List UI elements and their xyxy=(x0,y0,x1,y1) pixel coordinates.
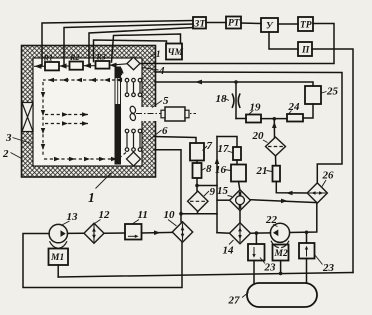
svg-text:М1: М1 xyxy=(50,253,64,263)
filter diamond 10 xyxy=(172,222,192,242)
svg-text:4: 4 xyxy=(158,65,165,77)
svg-text:25: 25 xyxy=(326,86,339,98)
wire chamber to box 7 xyxy=(154,137,196,144)
pump-motor diamond 15 xyxy=(230,190,251,211)
wire RT-U xyxy=(241,22,261,25)
junction node 23 left tap xyxy=(255,231,259,235)
block CHM xyxy=(166,44,182,60)
wire 9 bottom to node xyxy=(181,212,198,214)
wire tap to tank box 23 left xyxy=(255,233,257,244)
block 16 xyxy=(231,165,246,182)
wire node8 to riser xyxy=(197,185,217,187)
svg-text:R1: R1 xyxy=(43,54,53,63)
svg-text:9: 9 xyxy=(210,186,216,198)
wire riser bottom to valve 14 xyxy=(217,232,230,235)
riser wire x217 xyxy=(216,137,218,233)
block TR xyxy=(298,17,313,31)
wire pump15 to 26 bottom xyxy=(251,200,317,203)
wire U-TR xyxy=(278,23,298,25)
svg-text:5: 5 xyxy=(163,95,169,107)
wire 12-11 xyxy=(104,232,125,234)
svg-text:23: 23 xyxy=(322,262,335,274)
fan 5 propeller xyxy=(129,106,136,122)
heat exchanger 25 xyxy=(305,86,321,104)
wire 19-24 xyxy=(261,118,287,120)
block U xyxy=(261,18,278,32)
sensor diamond 4 xyxy=(127,57,140,70)
svg-text:20: 20 xyxy=(252,130,265,142)
wire U-P xyxy=(269,32,298,49)
wire node to riser xyxy=(181,213,217,215)
svg-text:16: 16 xyxy=(215,164,227,176)
dashed circulation flow xyxy=(43,69,126,159)
svg-text:18: 18 xyxy=(216,93,228,105)
wire bus L1 to ZT xyxy=(42,21,193,67)
restrictor 19 xyxy=(246,115,261,123)
arrow right 15 to 26 xyxy=(281,199,288,204)
nozzle 18 arcs xyxy=(232,94,239,107)
wire pump13 to 12 xyxy=(68,232,85,234)
chamber interior xyxy=(34,59,141,165)
svg-text:ЗТ: ЗТ xyxy=(194,20,207,30)
pump 22 xyxy=(270,223,289,247)
wire 23L to tank xyxy=(253,261,255,284)
wire 24 to 25 xyxy=(303,104,313,118)
valve diamond 9 xyxy=(188,191,208,211)
svg-text:13: 13 xyxy=(67,211,79,223)
flow arrows on wires xyxy=(154,80,293,235)
svg-text:24: 24 xyxy=(288,101,301,113)
wire 18 vertical lower to 19 xyxy=(236,118,246,120)
wire 23R to tank xyxy=(306,259,308,283)
filter diamond 12 xyxy=(84,223,104,243)
svg-text:М2: М2 xyxy=(274,249,288,259)
wire 21 down right to filter 26 xyxy=(276,182,307,194)
in-wall exchanger 3 xyxy=(22,103,33,132)
svg-text:ЧМ: ЧМ xyxy=(168,48,184,58)
motor M1 box xyxy=(49,249,69,266)
wire 18 vertical upper xyxy=(235,82,237,119)
motor M2 box xyxy=(273,245,289,261)
svg-text:РТ: РТ xyxy=(228,19,241,29)
block ZT xyxy=(193,17,206,29)
arrow in box 23 right (up) xyxy=(305,246,308,257)
block 11 xyxy=(125,224,142,240)
wire P right down to motors line xyxy=(312,49,353,273)
wire bus L5 specimen to CHM xyxy=(112,34,181,62)
flow arrow into chamber xyxy=(195,80,202,85)
wire 15-14 xyxy=(239,211,241,223)
svg-text:П: П xyxy=(301,46,310,56)
valve 21 xyxy=(273,166,281,182)
contacts 6 lower group xyxy=(125,129,142,151)
svg-text:11: 11 xyxy=(138,209,148,221)
svg-text:19: 19 xyxy=(250,102,262,114)
heater link line with arrows xyxy=(34,63,127,68)
block 17 xyxy=(233,147,241,160)
wire M1 drop xyxy=(57,265,59,277)
svg-text:14: 14 xyxy=(223,245,235,257)
wire bus L3 to ZT xyxy=(89,28,193,66)
wire chamber to valve 10 xyxy=(154,150,181,222)
junction node M2 supply xyxy=(279,272,283,276)
specimen bar xyxy=(115,67,121,164)
sensor diamond lower xyxy=(127,152,141,166)
wire 11-10 xyxy=(142,231,173,234)
wire 16-15 xyxy=(239,182,240,190)
wire 20-21 xyxy=(275,156,277,166)
junction node 23 right tap xyxy=(305,231,309,235)
wire motors line M1-M2-P xyxy=(58,273,353,278)
arrow up on riser xyxy=(215,158,220,165)
wire 10 bottom return loop xyxy=(23,234,182,288)
svg-text:1: 1 xyxy=(156,49,161,59)
wire 17-16 xyxy=(236,160,238,165)
svg-text:ТР: ТР xyxy=(300,21,312,31)
valve 8 xyxy=(193,163,202,178)
junction node below 8 xyxy=(195,184,199,188)
svg-text:2: 2 xyxy=(2,148,9,160)
heater R3 xyxy=(96,61,110,69)
svg-text:7: 7 xyxy=(207,140,213,152)
junction node at 18 tap xyxy=(234,80,238,84)
pump 13 xyxy=(49,224,67,248)
svg-text:3: 3 xyxy=(5,132,12,144)
wire riser top to 17 xyxy=(217,137,237,148)
contacts 4 upper group xyxy=(125,78,142,96)
chamber 1 wall (cross-hatched) xyxy=(22,46,156,178)
svg-text:23: 23 xyxy=(264,262,277,274)
svg-text:12: 12 xyxy=(99,209,111,221)
leader lines xyxy=(11,54,327,298)
block P xyxy=(298,42,312,56)
block 7 xyxy=(190,143,204,161)
motor 5 with shaft xyxy=(136,107,196,121)
wire 14 to pump 22 xyxy=(251,232,271,234)
wire 8-9 xyxy=(196,178,198,191)
svg-text:21: 21 xyxy=(256,165,268,177)
svg-text:22: 22 xyxy=(265,214,278,226)
tank box 23 right xyxy=(299,243,315,259)
throttle diamond 20 xyxy=(266,137,286,156)
filter diamond 26 xyxy=(307,183,327,203)
svg-text:R3: R3 xyxy=(96,53,106,62)
svg-text:15: 15 xyxy=(217,185,229,197)
svg-text:1: 1 xyxy=(88,190,95,205)
heater R1 xyxy=(45,62,59,70)
restrictor 24 xyxy=(287,114,303,122)
wire 26 bottom to pump 22 line xyxy=(290,203,317,232)
wire bus L2 to ZT xyxy=(64,24,193,66)
arrow left to 21 from 26 xyxy=(286,191,293,196)
junction node above 10 xyxy=(179,212,183,216)
arrow up to node 19-24 xyxy=(272,122,277,129)
junction node 19-24 xyxy=(273,117,277,121)
svg-text:10: 10 xyxy=(164,209,176,221)
wire chamber to 26 via right side xyxy=(155,72,342,183)
wall gap for fan shaft xyxy=(141,107,157,121)
svg-text:8: 8 xyxy=(206,163,212,175)
tank box 23 left xyxy=(248,244,265,261)
filter diamond 14 xyxy=(230,223,251,244)
wire bus L4 to CHM xyxy=(94,40,167,62)
wire tap to tank box 23 right xyxy=(306,232,308,243)
wire TR down to node line y63.5 xyxy=(140,24,334,64)
wire 7-8 xyxy=(196,161,198,164)
block RT xyxy=(226,17,241,29)
arrow right 11 to 10 xyxy=(154,230,161,235)
svg-text:6: 6 xyxy=(162,125,168,137)
svg-text:26: 26 xyxy=(322,170,335,182)
wire junction to throttle 20 xyxy=(273,119,275,138)
arrow in box 23 left (down) xyxy=(252,247,255,258)
wire node line y82 into chamber xyxy=(155,82,313,86)
svg-text:27: 27 xyxy=(228,295,241,307)
svg-text:R2: R2 xyxy=(69,53,79,62)
wire M2 drop xyxy=(280,261,282,274)
tank 27 xyxy=(247,283,317,307)
heater R2 xyxy=(70,62,84,70)
wire ZT-RT xyxy=(206,22,226,24)
arrow in box 11 xyxy=(128,235,139,238)
wire riser to pump 15 xyxy=(217,199,230,201)
svg-text:17: 17 xyxy=(218,143,230,155)
